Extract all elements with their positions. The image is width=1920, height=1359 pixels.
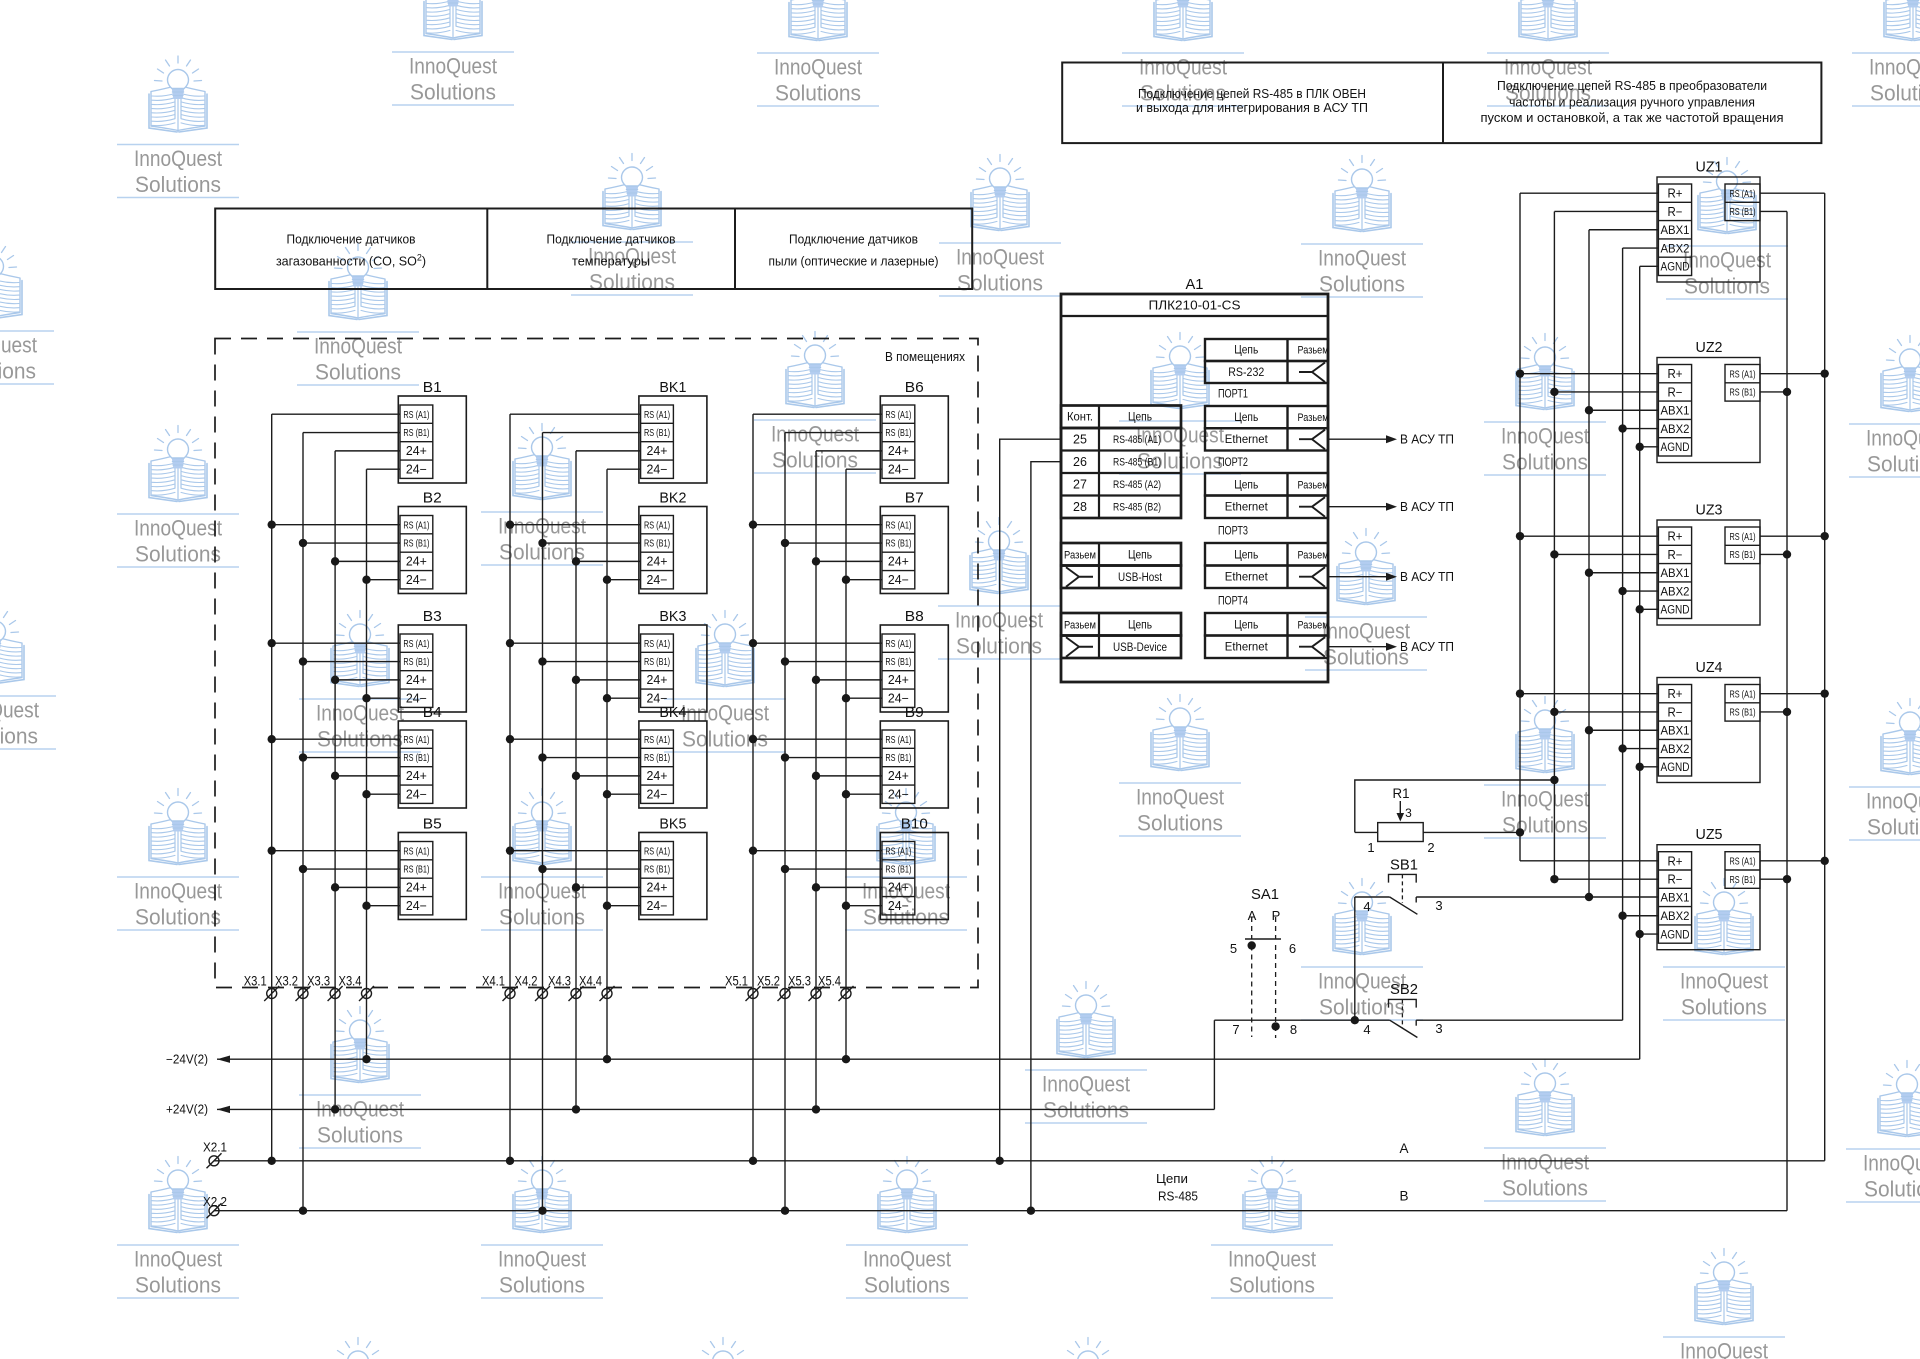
svg-text:AGND: AGND <box>1661 605 1690 617</box>
svg-text:В помещениях: В помещениях <box>885 350 966 364</box>
svg-text:Разьем: Разьем <box>1298 345 1329 357</box>
svg-text:Ethernet: Ethernet <box>1225 570 1269 584</box>
svg-text:RS (B1): RS (B1) <box>403 864 429 876</box>
svg-text:X4.3: X4.3 <box>548 973 571 989</box>
svg-text:загазованности (CO, SO2): загазованности (CO, SO2) <box>276 253 426 269</box>
svg-text:RS (B1): RS (B1) <box>885 427 911 439</box>
svg-text:USB-Host: USB-Host <box>1118 572 1163 584</box>
svg-text:24−: 24− <box>406 462 427 476</box>
svg-text:RS (A1): RS (A1) <box>403 734 429 746</box>
svg-text:24+: 24+ <box>888 881 909 895</box>
svg-text:2: 2 <box>1427 840 1434 855</box>
svg-text:28: 28 <box>1073 500 1087 514</box>
svg-text:24+: 24+ <box>647 881 668 895</box>
svg-text:и выхода для интегрирования в: и выхода для интегрирования в АСУ ТП <box>1136 101 1368 115</box>
svg-text:ABX2: ABX2 <box>1661 243 1690 255</box>
svg-text:RS (B1): RS (B1) <box>644 538 670 550</box>
svg-text:RS (B1): RS (B1) <box>885 656 911 668</box>
svg-text:UZ4: UZ4 <box>1696 659 1723 676</box>
svg-text:Цепь: Цепь <box>1128 620 1152 632</box>
svg-text:Ethernet: Ethernet <box>1225 640 1269 654</box>
svg-text:SB1: SB1 <box>1390 858 1418 874</box>
svg-text:ABX1: ABX1 <box>1661 568 1690 580</box>
svg-text:USB-Device: USB-Device <box>1113 642 1167 654</box>
svg-text:Цепи: Цепи <box>1156 1172 1188 1186</box>
svg-text:P: P <box>1272 908 1281 923</box>
svg-text:27: 27 <box>1073 477 1087 491</box>
svg-text:5: 5 <box>1230 941 1237 956</box>
svg-text:RS (B1): RS (B1) <box>403 752 429 764</box>
svg-text:Подключение цепей RS-485 в ПЛК: Подключение цепей RS-485 в ПЛК ОВЕН <box>1138 87 1366 101</box>
svg-text:B7: B7 <box>905 490 924 507</box>
svg-text:Разьем: Разьем <box>1298 479 1329 491</box>
svg-text:Ethernet: Ethernet <box>1225 432 1269 446</box>
svg-text:B: B <box>1399 1189 1408 1204</box>
svg-text:ABX1: ABX1 <box>1661 893 1690 905</box>
svg-text:24−: 24− <box>406 899 427 913</box>
svg-text:RS (A1): RS (A1) <box>885 734 911 746</box>
svg-text:24+: 24+ <box>647 444 668 458</box>
svg-text:24+: 24+ <box>406 769 427 783</box>
svg-text:Разьем: Разьем <box>1064 550 1096 562</box>
svg-text:A: A <box>1399 1141 1408 1156</box>
svg-text:B6: B6 <box>905 379 924 396</box>
svg-text:RS (B1): RS (B1) <box>403 538 429 550</box>
svg-text:Цепь: Цепь <box>1234 412 1258 424</box>
svg-text:AGND: AGND <box>1661 929 1690 941</box>
svg-text:4: 4 <box>1363 1022 1370 1037</box>
svg-text:RS (B1): RS (B1) <box>1730 874 1756 886</box>
svg-text:ABX1: ABX1 <box>1661 405 1690 417</box>
svg-text:R+: R+ <box>1668 854 1683 868</box>
svg-text:4: 4 <box>1363 899 1370 914</box>
svg-text:Цепь: Цепь <box>1234 619 1258 631</box>
svg-text:SA1: SA1 <box>1251 887 1279 903</box>
svg-text:24+: 24+ <box>888 555 909 569</box>
svg-text:ABX2: ABX2 <box>1661 586 1690 598</box>
svg-text:RS (B1): RS (B1) <box>644 864 670 876</box>
svg-text:26: 26 <box>1073 455 1087 469</box>
svg-text:AGND: AGND <box>1661 762 1690 774</box>
svg-text:Цепь: Цепь <box>1128 410 1152 424</box>
svg-text:ПОРТ1: ПОРТ1 <box>1218 389 1248 401</box>
svg-text:3: 3 <box>1405 806 1412 820</box>
svg-text:BK3: BK3 <box>659 608 686 625</box>
svg-text:RS (A1): RS (A1) <box>403 409 429 421</box>
svg-text:24−: 24− <box>406 573 427 587</box>
svg-text:ABX1: ABX1 <box>1661 725 1690 737</box>
svg-text:RS (B1): RS (B1) <box>644 427 670 439</box>
svg-text:RS-485: RS-485 <box>1158 1190 1198 1204</box>
svg-text:температуры: температуры <box>572 255 650 269</box>
svg-text:ABX1: ABX1 <box>1661 225 1690 237</box>
svg-text:BK4: BK4 <box>659 704 686 721</box>
svg-text:SB2: SB2 <box>1390 982 1418 998</box>
svg-text:RS (A1): RS (A1) <box>644 734 670 746</box>
svg-text:частоты и реализация ручного у: частоты и реализация ручного управления <box>1509 96 1755 110</box>
svg-text:R−: R− <box>1668 873 1683 887</box>
svg-text:пыли (оптические и лазерные): пыли (оптические и лазерные) <box>769 255 939 269</box>
svg-text:R−: R− <box>1668 205 1683 219</box>
svg-text:1: 1 <box>1367 840 1374 855</box>
svg-text:AGND: AGND <box>1661 262 1690 274</box>
svg-text:B9: B9 <box>905 704 924 721</box>
svg-text:RS (A1): RS (A1) <box>885 638 911 650</box>
svg-text:RS (B1): RS (B1) <box>1730 549 1756 561</box>
svg-text:ABX2: ABX2 <box>1661 911 1690 923</box>
svg-text:B2: B2 <box>423 490 442 507</box>
svg-text:+24V(2): +24V(2) <box>166 1103 208 1117</box>
svg-text:RS (A1): RS (A1) <box>1730 188 1756 200</box>
svg-text:Цепь: Цепь <box>1128 550 1152 562</box>
svg-text:24−: 24− <box>888 462 909 476</box>
svg-text:RS (A1): RS (A1) <box>885 409 911 421</box>
svg-text:Подключение датчиков: Подключение датчиков <box>547 233 676 247</box>
svg-text:RS (A1): RS (A1) <box>403 638 429 650</box>
svg-text:R−: R− <box>1668 385 1683 399</box>
svg-text:X4.2: X4.2 <box>515 973 538 989</box>
svg-text:RS (B1): RS (B1) <box>1730 707 1756 719</box>
svg-text:24+: 24+ <box>888 769 909 783</box>
svg-text:R+: R+ <box>1668 687 1683 701</box>
svg-text:пуском и остановкой, а так же: пуском и остановкой, а так же частотой в… <box>1481 111 1784 125</box>
svg-text:24−: 24− <box>888 573 909 587</box>
svg-text:3: 3 <box>1435 898 1442 913</box>
svg-text:ABX2: ABX2 <box>1661 744 1690 756</box>
svg-text:Разьем: Разьем <box>1064 620 1096 632</box>
svg-text:24−: 24− <box>888 787 909 801</box>
svg-text:X3.1: X3.1 <box>244 973 267 989</box>
svg-text:X3.4: X3.4 <box>339 973 362 989</box>
svg-text:RS (A1): RS (A1) <box>403 845 429 857</box>
svg-text:24+: 24+ <box>647 769 668 783</box>
svg-text:−24V(2): −24V(2) <box>166 1053 208 1067</box>
svg-text:24−: 24− <box>647 462 668 476</box>
svg-text:X5.4: X5.4 <box>818 973 841 989</box>
svg-text:AGND: AGND <box>1661 442 1690 454</box>
svg-text:R−: R− <box>1668 548 1683 562</box>
svg-text:Конт.: Конт. <box>1067 410 1093 424</box>
svg-text:RS (B1): RS (B1) <box>1730 387 1756 399</box>
svg-text:B8: B8 <box>905 608 924 625</box>
svg-text:24+: 24+ <box>406 444 427 458</box>
svg-text:BK5: BK5 <box>659 816 686 833</box>
svg-text:RS (A1): RS (A1) <box>644 845 670 857</box>
svg-text:RS (A1): RS (A1) <box>403 519 429 531</box>
svg-text:RS (A1): RS (A1) <box>644 519 670 531</box>
svg-text:RS (B1): RS (B1) <box>403 427 429 439</box>
svg-text:ПОРТ2: ПОРТ2 <box>1218 457 1248 469</box>
svg-text:RS (B1): RS (B1) <box>885 864 911 876</box>
svg-text:24−: 24− <box>406 787 427 801</box>
svg-text:В АСУ ТП: В АСУ ТП <box>1400 500 1454 514</box>
svg-text:24−: 24− <box>888 899 909 913</box>
svg-text:RS (A1): RS (A1) <box>1730 531 1756 543</box>
svg-text:B4: B4 <box>423 704 442 721</box>
svg-text:Разьем: Разьем <box>1298 549 1329 561</box>
svg-text:RS (A1): RS (A1) <box>1730 688 1756 700</box>
svg-text:X3.2: X3.2 <box>275 973 298 989</box>
svg-text:24+: 24+ <box>888 444 909 458</box>
svg-text:6: 6 <box>1289 941 1296 956</box>
svg-text:Подключение датчиков: Подключение датчиков <box>789 233 918 247</box>
svg-text:X5.2: X5.2 <box>757 973 780 989</box>
svg-text:X2.2: X2.2 <box>203 1194 227 1209</box>
svg-text:RS (A1): RS (A1) <box>644 409 670 421</box>
svg-text:24+: 24+ <box>647 673 668 687</box>
svg-text:RS (A1): RS (A1) <box>885 845 911 857</box>
svg-text:В АСУ ТП: В АСУ ТП <box>1400 432 1454 446</box>
svg-text:24−: 24− <box>647 573 668 587</box>
svg-text:Подключение датчиков: Подключение датчиков <box>287 233 416 247</box>
svg-text:X5.3: X5.3 <box>788 973 811 989</box>
svg-text:RS-485 (B2): RS-485 (B2) <box>1113 502 1161 514</box>
svg-text:UZ3: UZ3 <box>1696 502 1723 519</box>
svg-text:RS (B1): RS (B1) <box>885 752 911 764</box>
svg-text:A1: A1 <box>1186 276 1204 293</box>
svg-text:В АСУ ТП: В АСУ ТП <box>1400 640 1454 654</box>
svg-text:RS-232: RS-232 <box>1228 365 1264 379</box>
svg-text:R+: R+ <box>1668 367 1683 381</box>
svg-text:24+: 24+ <box>406 881 427 895</box>
svg-text:24+: 24+ <box>406 673 427 687</box>
svg-text:ПОРТ4: ПОРТ4 <box>1218 596 1248 608</box>
svg-text:R−: R− <box>1668 705 1683 719</box>
svg-text:Цепь: Цепь <box>1234 345 1258 357</box>
svg-text:RS (B1): RS (B1) <box>403 656 429 668</box>
svg-text:RS (A1): RS (A1) <box>885 519 911 531</box>
svg-text:X5.1: X5.1 <box>725 973 748 989</box>
svg-text:RS (B1): RS (B1) <box>644 656 670 668</box>
svg-text:24+: 24+ <box>406 555 427 569</box>
svg-text:Подключение цепей RS-485 в пре: Подключение цепей RS-485 в преобразовате… <box>1497 79 1767 93</box>
svg-text:UZ1: UZ1 <box>1696 159 1723 176</box>
svg-text:3: 3 <box>1435 1021 1442 1036</box>
svg-text:Разьем: Разьем <box>1298 619 1329 631</box>
svg-text:R1: R1 <box>1393 785 1410 801</box>
svg-text:24+: 24+ <box>647 555 668 569</box>
svg-text:X2.1: X2.1 <box>203 1140 227 1155</box>
svg-text:RS-485 (A1): RS-485 (A1) <box>1113 434 1161 446</box>
svg-text:BK1: BK1 <box>659 379 686 396</box>
svg-text:В АСУ ТП: В АСУ ТП <box>1400 570 1454 584</box>
svg-text:X3.3: X3.3 <box>307 973 330 989</box>
svg-text:24+: 24+ <box>888 673 909 687</box>
svg-text:B1: B1 <box>423 379 442 396</box>
svg-text:RS (B1): RS (B1) <box>885 538 911 550</box>
svg-text:Ethernet: Ethernet <box>1225 500 1269 514</box>
svg-text:Цепь: Цепь <box>1234 549 1258 561</box>
svg-text:RS (B1): RS (B1) <box>1730 206 1756 218</box>
svg-text:8: 8 <box>1290 1022 1297 1037</box>
svg-text:ПЛК210-01-CS: ПЛК210-01-CS <box>1149 299 1241 313</box>
svg-text:25: 25 <box>1073 432 1087 446</box>
svg-text:UZ2: UZ2 <box>1696 339 1723 356</box>
svg-text:RS-485 (A2): RS-485 (A2) <box>1113 479 1161 491</box>
svg-text:24−: 24− <box>647 899 668 913</box>
svg-text:RS (A1): RS (A1) <box>1730 855 1756 867</box>
svg-text:24−: 24− <box>647 787 668 801</box>
svg-text:BK2: BK2 <box>659 490 686 507</box>
svg-text:ПОРТ3: ПОРТ3 <box>1218 526 1248 538</box>
svg-text:B10: B10 <box>901 816 928 833</box>
svg-text:Разьем: Разьем <box>1298 412 1329 424</box>
svg-text:B3: B3 <box>423 608 442 625</box>
svg-text:X4.4: X4.4 <box>579 973 602 989</box>
svg-text:R+: R+ <box>1668 530 1683 544</box>
svg-text:7: 7 <box>1232 1022 1239 1037</box>
svg-text:UZ5: UZ5 <box>1696 826 1723 843</box>
svg-text:ABX2: ABX2 <box>1661 424 1690 436</box>
svg-text:B5: B5 <box>423 816 442 833</box>
svg-text:R+: R+ <box>1668 187 1683 201</box>
svg-text:A: A <box>1248 908 1257 923</box>
svg-text:RS-485 (B1): RS-485 (B1) <box>1113 457 1161 469</box>
svg-text:RS (A1): RS (A1) <box>1730 368 1756 380</box>
svg-text:RS (A1): RS (A1) <box>644 638 670 650</box>
svg-text:Цепь: Цепь <box>1234 479 1258 491</box>
svg-text:RS (B1): RS (B1) <box>644 752 670 764</box>
svg-text:X4.1: X4.1 <box>482 973 505 989</box>
